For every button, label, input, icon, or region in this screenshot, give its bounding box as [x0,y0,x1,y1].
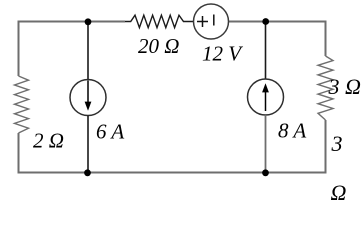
V1 minus bar [213,15,215,26]
wire left lower [18,133,20,173]
wire top-left segment [19,21,126,23]
V1 plus sign [197,16,208,27]
I2 arrow (up) [265,91,267,111]
voltage source V1 12V circle [194,4,229,39]
I1 arrow (down) [87,81,89,104]
wire bottom [18,172,326,174]
svg-text:3 Ω: 3 Ω [328,74,362,99]
node A (top-left junction) [85,18,92,25]
wire 6A branch lower [87,116,89,173]
svg-text:2 Ω: 2 Ω [33,129,64,153]
current source I2 8A circle [248,79,284,115]
node C (bottom-left junction) [84,169,91,176]
resistor R3 3 Ohm (right zigzag) [318,56,333,120]
svg-text:8 A: 8 A [278,119,306,143]
svg-text:12 V: 12 V [202,42,243,66]
svg-text:6 A: 6 A [96,120,124,144]
node B (top-right junction) [262,18,269,25]
wire 6A branch upper [87,22,89,81]
svg-text:Ω: Ω [331,180,347,205]
wire top-right segment [228,21,326,23]
wire left [18,21,20,77]
svg-text:3: 3 [331,131,343,156]
node D (bottom-right junction) [262,169,269,176]
resistor R1 2 Ohm (left zigzag) [15,76,29,133]
svg-text:20 Ω: 20 Ω [138,34,179,58]
resistor R2 20 Ohm (top zigzag) [125,15,193,27]
wire 8A branch upper [265,22,267,80]
current source I1 6A circle [70,80,106,116]
wire right upper [325,21,327,57]
wire 8A branch lower [265,115,267,173]
wire right lower [325,120,327,174]
